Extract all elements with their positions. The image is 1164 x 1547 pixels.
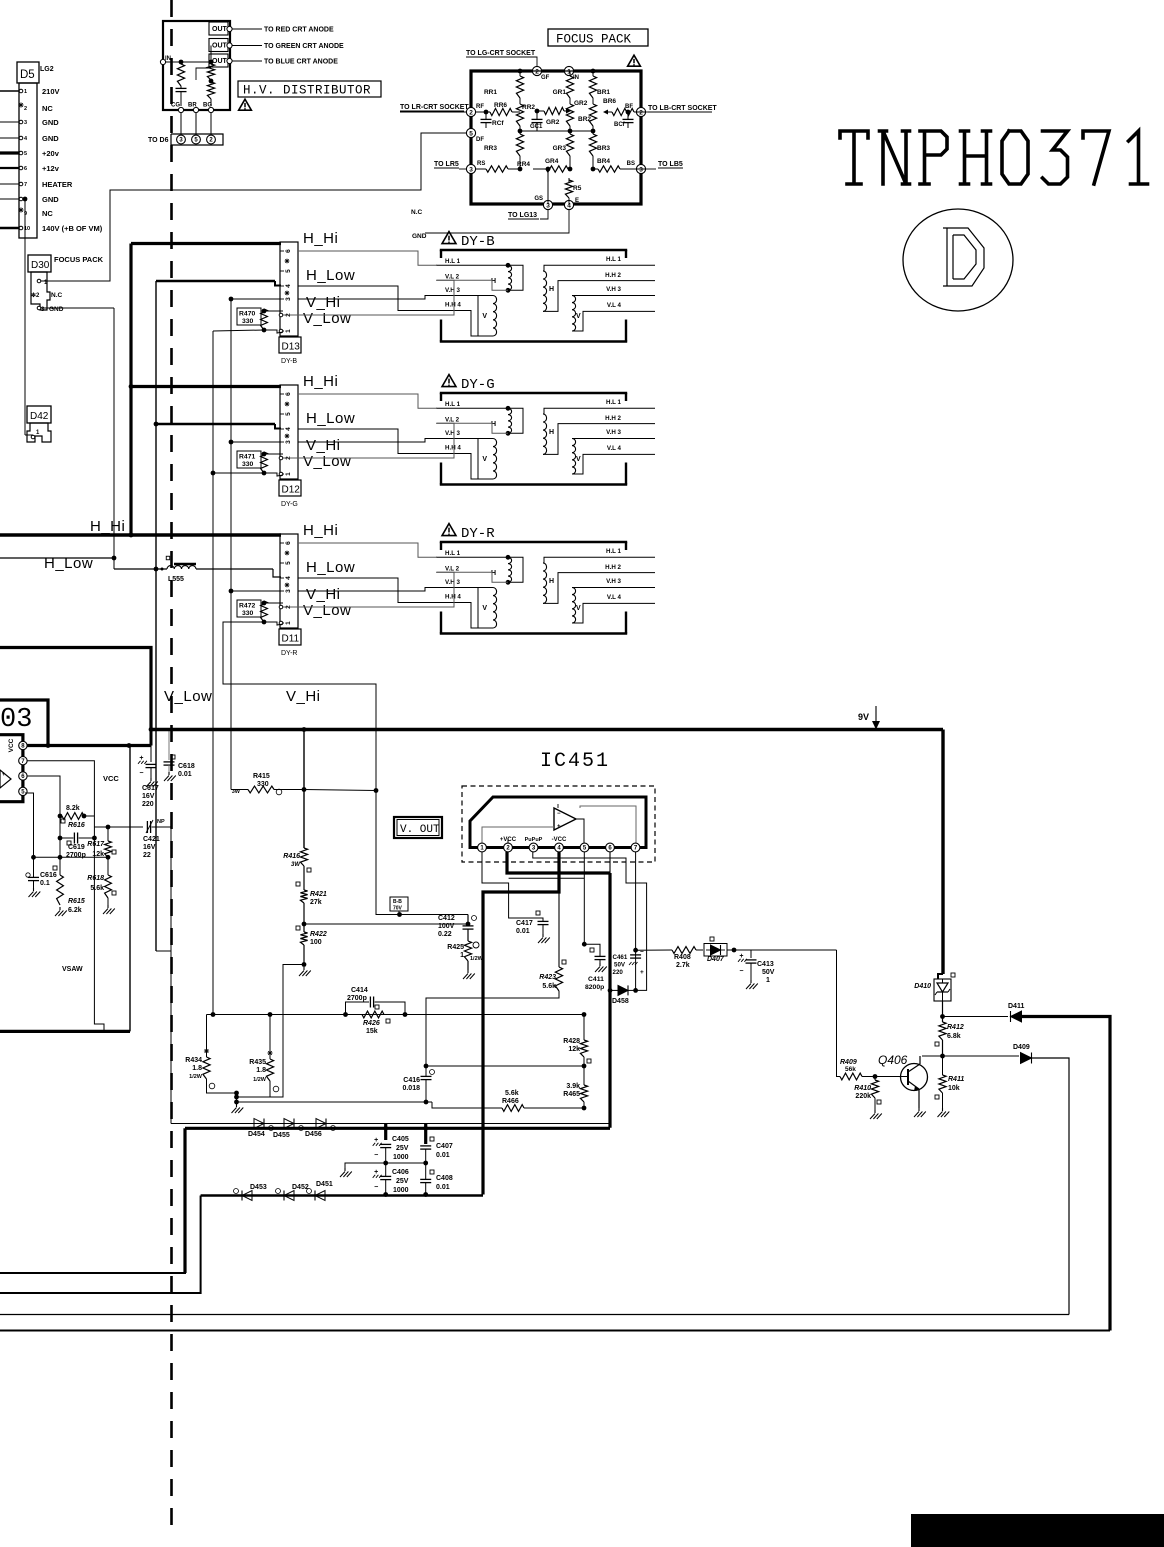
svg-text:C412: C412: [438, 915, 455, 922]
svg-text:RR1: RR1: [484, 89, 497, 96]
focus resistor RR2 chain: [516, 104, 523, 126]
focus pin IN: [564, 66, 573, 75]
focus internal top bus: [520, 70, 593, 72]
resistor R426 15k: [362, 1011, 384, 1018]
HV OUT terminal 1: [209, 22, 228, 35]
DY-B weave H.H4: [298, 286, 437, 311]
wires to D6 connector: [180, 113, 182, 134]
resistor R434 1.8 1/2W: [206, 1015, 208, 1058]
DY-G H.H4 wire: [436, 454, 478, 480]
svg-text:V: V: [482, 605, 487, 612]
svg-text:330: 330: [242, 461, 254, 468]
HV internal resistor right lower: [207, 82, 214, 99]
wire D30 pin3 to H_Low net: [41, 307, 114, 309]
svg-text:PuPuP: PuPuP: [525, 837, 543, 843]
resistor R425 1 1/2W: [464, 941, 471, 961]
DY-R V.L2 wire to coil bottom: [436, 572, 508, 582]
svg-text:R423: R423: [539, 974, 556, 981]
svg-text:4: 4: [285, 284, 292, 288]
svg-text:D42: D42: [30, 411, 49, 422]
connector D5 label box: [17, 62, 39, 83]
svg-text:R615: R615: [68, 898, 85, 905]
focus resistor BR6: [634, 111, 646, 113]
DY-R weave V.H3: [298, 588, 437, 592]
svg-text:N.C: N.C: [411, 209, 423, 216]
svg-text:GF: GF: [541, 75, 550, 81]
DY-B H coil left: [436, 264, 508, 266]
node lines going right: [237, 1101, 427, 1103]
svg-text:5: 5: [285, 412, 292, 416]
svg-text:V.H 3: V.H 3: [445, 430, 460, 437]
svg-text:H: H: [549, 578, 554, 585]
svg-text:10k: 10k: [948, 1085, 960, 1092]
svg-text:−: −: [739, 968, 743, 975]
svg-text:V_Low: V_Low: [164, 688, 212, 705]
stub pin3 DY-G: [231, 441, 281, 443]
svg-text:C413: C413: [757, 961, 774, 968]
svg-text:C618: C618: [178, 763, 195, 770]
svg-text:H.L 1: H.L 1: [606, 399, 622, 406]
pin1 wire to C417: [482, 852, 543, 921]
DY-G weave V.L2: [283, 423, 454, 458]
HV internal resistor left: [177, 64, 184, 86]
pin4 -VCC thick drop: [483, 852, 559, 1195]
thick bus y1128: [185, 1127, 610, 1130]
focus resistor BR4: [593, 168, 598, 170]
resistor R618 5.6k: [107, 857, 109, 875]
DY-B right external wires: [626, 264, 655, 266]
svg-text:H.L 1: H.L 1: [445, 258, 461, 265]
svg-text:V_Hi: V_Hi: [286, 688, 321, 705]
warning triangle HV: [239, 99, 252, 110]
svg-text:BR3: BR3: [597, 145, 610, 152]
svg-text:2700p: 2700p: [66, 852, 86, 859]
svg-text:R618: R618: [87, 875, 104, 882]
svg-text:16V: 16V: [142, 793, 155, 800]
svg-text:D411: D411: [1008, 1003, 1024, 1010]
resistor R616 8.2k: [62, 813, 84, 820]
svg-text:15k: 15k: [366, 1028, 378, 1035]
svg-text:DY-R: DY-R: [461, 526, 495, 542]
DY-R V coil right: [572, 587, 626, 589]
focus resistor BR4 wire: [592, 156, 594, 169]
resistor R465 3.9k: [580, 1085, 587, 1102]
corner D451 row to bottom: [0, 1196, 201, 1294]
svg-text:−: −: [374, 1184, 378, 1191]
resistor R423 5.6k: [555, 967, 562, 991]
svg-text:H.H 2: H.H 2: [605, 272, 621, 279]
svg-text:✻2: ✻2: [31, 292, 40, 299]
svg-text:0.1: 0.1: [40, 880, 50, 887]
9V power bus: [151, 728, 943, 731]
wire to GF: [533, 57, 537, 66]
wire collector line: [922, 1055, 943, 1057]
svg-text:C417: C417: [516, 920, 533, 927]
capacitor C461 220 50V: [630, 954, 641, 956]
diode D454: [254, 1119, 264, 1129]
svg-text:RS: RS: [477, 161, 485, 167]
svg-text:RR3: RR3: [484, 145, 497, 152]
svg-text:H_Low: H_Low: [306, 267, 355, 284]
DY-R H coil left: [436, 556, 508, 558]
svg-text:1: 1: [567, 68, 571, 75]
R422 to ground: [303, 945, 305, 965]
svg-text:D11: D11: [282, 634, 300, 645]
R471 top wire to pin2: [264, 453, 283, 455]
stub pin3 DY-B: [231, 298, 281, 300]
node line y857: [34, 856, 109, 858]
svg-text:220k: 220k: [855, 1093, 871, 1100]
svg-text:16V: 16V: [143, 844, 156, 851]
svg-text:R470: R470: [239, 311, 255, 318]
pin2 +VCC thick drop: [507, 852, 610, 873]
svg-text:TO D6: TO D6: [148, 137, 169, 144]
IC603 pin 8 VCC: [19, 741, 27, 749]
svg-text:NC: NC: [42, 104, 53, 113]
IC451 pin 5: [580, 843, 589, 852]
R471 bottom wire: [264, 473, 283, 476]
focus pin GF: [532, 66, 541, 75]
waveform ref box 70V: [390, 897, 408, 911]
svg-text:VCC: VCC: [103, 774, 119, 783]
DY-R H.H4 wire: [436, 603, 478, 629]
IC body right edge: [0, 735, 23, 802]
focus resistor BR1: [592, 71, 594, 76]
DY-R weave V.L2: [283, 572, 454, 607]
vertical H_Hi distribution: [129, 244, 132, 536]
focus pin GS: [543, 200, 552, 209]
connector D42 label box: [27, 406, 51, 423]
svg-text:D456: D456: [305, 1131, 322, 1138]
focus mid bus: [520, 130, 593, 132]
svg-text:RR4: RR4: [517, 161, 530, 168]
svg-text:V: V: [576, 605, 581, 612]
svg-text:V: V: [576, 313, 581, 320]
focus resistor GR3: [569, 131, 571, 134]
svg-text:5.6k: 5.6k: [505, 1090, 519, 1097]
svg-text:GC1: GC1: [530, 124, 543, 130]
capacitor C405 1000 25V: [384, 1124, 387, 1141]
revision circle D: [903, 209, 1013, 311]
diode D452: [284, 1191, 294, 1201]
diode D409: [943, 1055, 1020, 1057]
svg-text:GND: GND: [42, 134, 59, 143]
DY-R H coil right: [544, 557, 626, 563]
DY-B V coil left: [436, 296, 493, 337]
R470 top wire to pin2: [264, 310, 283, 312]
svg-text:TO LG-CRT SOCKET: TO LG-CRT SOCKET: [466, 50, 536, 57]
wire R415 node to V_Hi drop: [304, 790, 376, 791]
svg-text:HEATER: HEATER: [42, 180, 73, 189]
svg-text:D410: D410: [914, 983, 931, 990]
diode D451: [315, 1191, 325, 1201]
svg-text:D13: D13: [282, 342, 301, 353]
svg-text:V: V: [482, 456, 487, 463]
capacitor C618 0.01: [168, 730, 170, 761]
diode D456: [316, 1119, 326, 1129]
focus resistor RR1: [519, 71, 521, 76]
capacitor C421 22/16V NP: [94, 826, 143, 828]
svg-text:V.H 3: V.H 3: [445, 579, 460, 586]
HV jumper wire: [196, 68, 211, 80]
focus resistor GR2 horizontal: [537, 110, 544, 112]
svg-text:H.L 1: H.L 1: [445, 401, 461, 408]
svg-text:R616: R616: [68, 822, 85, 829]
svg-text:BR6: BR6: [603, 98, 616, 105]
svg-text:3.9k: 3.9k: [566, 1083, 580, 1090]
svg-text:OUT: OUT: [212, 58, 228, 65]
wire to Q406 base network: [837, 950, 841, 1077]
main H_Hi bus from left edge: [0, 533, 281, 536]
svg-text:100: 100: [310, 939, 322, 946]
svg-text:+: +: [640, 969, 644, 976]
svg-text:9V: 9V: [858, 712, 869, 722]
wire pin6 down to R616: [27, 776, 60, 816]
svg-text:3: 3: [639, 166, 643, 173]
IC451 pin 7: [631, 843, 640, 852]
svg-text:C406: C406: [392, 1169, 409, 1176]
connector D13 body: [280, 242, 298, 336]
warning triangle DY-G: [442, 375, 456, 387]
node R428 bottom: [583, 1057, 585, 1085]
svg-text:TO RED CRT ANODE: TO RED CRT ANODE: [264, 27, 334, 34]
svg-text:H.V. DISTRIBUTOR: H.V. DISTRIBUTOR: [243, 84, 371, 98]
svg-text:1000: 1000: [393, 1154, 409, 1161]
svg-text:1: 1: [24, 89, 27, 95]
focus cap RCf: [481, 118, 492, 120]
svg-text:5.6k: 5.6k: [542, 983, 556, 990]
DY-R V coil left: [436, 588, 493, 629]
svg-text:D454: D454: [248, 1131, 265, 1138]
svg-text:6: 6: [24, 166, 27, 172]
svg-text:5: 5: [285, 561, 292, 565]
svg-text:V.L 4: V.L 4: [607, 302, 622, 309]
FOCUS PACK title box: [548, 29, 648, 46]
wire H_Hi to DY-G: [131, 385, 281, 388]
svg-text:4: 4: [285, 576, 292, 580]
DY-B weave V.L2: [283, 280, 454, 315]
resistor R421 27k: [303, 866, 305, 890]
svg-text:TO LR-CRT SOCKET: TO LR-CRT SOCKET: [400, 104, 469, 111]
R435 bottom wire: [269, 1081, 271, 1097]
resistor R415 330 3W: [231, 789, 248, 791]
wire to C416: [426, 1065, 584, 1067]
connector D12 body: [280, 385, 298, 479]
wire bus to R416: [303, 730, 305, 849]
opamp inside IC451: [554, 808, 576, 830]
focus resistor RR4 wire: [519, 156, 521, 169]
svg-text:TO LB5: TO LB5: [658, 161, 683, 168]
svg-text:+: +: [2, 772, 6, 778]
svg-text:H.H 4: H.H 4: [445, 302, 461, 309]
svg-text:C405: C405: [392, 1136, 409, 1143]
wire H_Low from left edge: [0, 557, 114, 559]
svg-text:H_Hi: H_Hi: [303, 373, 338, 390]
svg-text:3: 3: [285, 440, 292, 444]
svg-text:LG2: LG2: [40, 66, 54, 73]
9V bus corner down to D410: [941, 730, 944, 975]
yoke frame DY-R: [440, 541, 627, 543]
svg-text:220: 220: [142, 801, 154, 808]
svg-text:GND: GND: [42, 118, 59, 127]
svg-text:C414: C414: [351, 987, 368, 994]
node D410 bottom: [942, 1001, 944, 1022]
svg-text:D5: D5: [20, 69, 35, 81]
HV internal cap: [176, 87, 187, 89]
focus R5: [568, 178, 570, 182]
capacitor C414 2700p: [346, 1002, 370, 1015]
VCC bus from pin8: [27, 744, 151, 747]
yoke frame DY-B: [440, 249, 627, 251]
svg-text:1: 1: [285, 472, 292, 476]
svg-text:RF: RF: [476, 104, 484, 110]
svg-text:−: −: [139, 770, 143, 777]
svg-text:BR4: BR4: [597, 158, 610, 165]
svg-text:V. OUT: V. OUT: [400, 824, 440, 836]
svg-text:8.2k: 8.2k: [66, 805, 80, 812]
svg-text:TO LB-CRT SOCKET: TO LB-CRT SOCKET: [648, 105, 717, 112]
svg-text:0.018: 0.018: [402, 1085, 420, 1092]
svg-text:0.01: 0.01: [516, 928, 530, 935]
svg-text:C421: C421: [143, 836, 160, 843]
svg-text:RR2: RR2: [522, 104, 535, 111]
svg-text:H.H 2: H.H 2: [605, 564, 621, 571]
HV internal wire: [166, 61, 211, 63]
svg-text:H.L 1: H.L 1: [606, 256, 622, 263]
HV OUT terminal 3: [209, 54, 228, 67]
pin5 drop to C411: [583, 852, 585, 944]
connector D11 body: [280, 534, 298, 628]
svg-text:DY-B: DY-B: [281, 358, 297, 365]
svg-text:GR2: GR2: [546, 119, 560, 126]
svg-text:1000: 1000: [393, 1187, 409, 1194]
resistor R416 3W: [300, 848, 307, 866]
svg-text:V: V: [576, 456, 581, 463]
svg-text:V.H 3: V.H 3: [606, 578, 621, 585]
ground mid caps: [345, 1163, 386, 1168]
diode D407 boxed: [696, 949, 703, 951]
svg-text:D30: D30: [31, 260, 50, 271]
svg-text:3: 3: [285, 297, 292, 301]
svg-text:R422: R422: [310, 931, 327, 938]
connector D13 label box: [279, 337, 301, 353]
opamp in IC603: [0, 770, 11, 788]
thick wire D411 to right edge: [1022, 1017, 1110, 1331]
DY-B weave V.H3: [298, 296, 437, 300]
svg-text:220: 220: [613, 969, 624, 976]
wire into L555: [114, 568, 167, 570]
svg-text:3: 3: [24, 120, 27, 126]
svg-text:R416: R416: [283, 853, 300, 860]
svg-text:V.H 3: V.H 3: [445, 287, 460, 294]
D5 pin8 gnd junction to D42: [23, 197, 28, 202]
svg-text:1/2W: 1/2W: [253, 1077, 267, 1083]
capacitor C411 8200p: [595, 955, 606, 957]
inductor L555: [167, 566, 196, 569]
resistor R412 6.8k: [939, 1022, 946, 1040]
svg-text:V_Hi: V_Hi: [306, 586, 341, 603]
stub pin3 DY-R: [231, 590, 281, 592]
drawing number TNPH0371: [840, 131, 868, 184]
R434 bottom wire: [207, 1079, 237, 1093]
DY-G H coil left: [436, 407, 508, 409]
R423 bottom wire: [426, 991, 559, 1066]
svg-text:2: 2: [469, 109, 473, 116]
focus pin E: [564, 200, 573, 209]
svg-text:6: 6: [285, 249, 292, 253]
focus pack body: [471, 71, 641, 204]
svg-text:FOCUS PACK: FOCUS PACK: [54, 255, 104, 264]
black registration bar bottom-right: [911, 1514, 1164, 1547]
diode row D451-453 line: [201, 1194, 483, 1197]
DY-G weave H.L1: [298, 394, 437, 408]
wire y924 from R422 node to C412: [304, 923, 468, 925]
IC451 pin 4: [555, 843, 564, 852]
svg-text:V_Low: V_Low: [303, 453, 351, 470]
wire H_Low to DY-G: [156, 423, 275, 426]
capacitor C408 0.01: [420, 1178, 431, 1180]
svg-text:CG: CG: [171, 103, 180, 109]
connector D5 body: [19, 83, 37, 238]
svg-text:TO LR5: TO LR5: [434, 161, 459, 168]
svg-text:5.6k: 5.6k: [90, 885, 104, 892]
svg-text:L555: L555: [168, 576, 184, 583]
resistor R617 12k: [107, 827, 109, 841]
svg-text:GND: GND: [42, 195, 59, 204]
svg-text:OUT: OUT: [212, 26, 228, 33]
svg-text:2700p: 2700p: [347, 995, 367, 1002]
bottom long wire outer: [0, 1330, 1110, 1332]
svg-text:+VCC: +VCC: [500, 837, 517, 843]
svg-text:H.L 1: H.L 1: [606, 548, 622, 555]
svg-text:9: 9: [24, 211, 27, 217]
connector D11 label box: [279, 629, 301, 645]
opamp output to pin5: [576, 819, 584, 843]
svg-text:−: −: [557, 811, 561, 817]
svg-text:TO GREEN CRT ANODE: TO GREEN CRT ANODE: [264, 43, 344, 50]
focus resistor RR3: [519, 131, 521, 134]
svg-text:4: 4: [285, 427, 292, 431]
H.V. distributor block body: [163, 21, 230, 110]
svg-text:H_Hi: H_Hi: [303, 230, 338, 247]
feedback wire to pin7: [580, 806, 636, 843]
svg-text:56k: 56k: [845, 1066, 856, 1073]
wire pin7 right and down: [27, 761, 94, 827]
dashed page-separation line: [170, 0, 173, 1526]
svg-text:D407: D407: [707, 956, 725, 963]
svg-text:D409: D409: [1013, 1044, 1030, 1051]
svg-text:R410: R410: [854, 1085, 871, 1092]
svg-text:50V: 50V: [614, 962, 626, 969]
svg-text:330: 330: [242, 610, 254, 617]
svg-text:R412: R412: [947, 1024, 964, 1031]
svg-text:C416: C416: [403, 1077, 420, 1084]
diode D458: [608, 988, 613, 993]
svg-text:GND: GND: [412, 233, 427, 240]
svg-text:210V: 210V: [42, 87, 60, 96]
svg-text:H_Hi: H_Hi: [303, 522, 338, 539]
svg-text:330: 330: [257, 781, 269, 788]
pin2 stub: [507, 838, 509, 843]
svg-text:DF: DF: [476, 137, 484, 143]
svg-text:NC: NC: [42, 209, 53, 218]
svg-text:+: +: [557, 824, 561, 830]
zener D410 boxed: [938, 974, 943, 979]
svg-text:D455: D455: [273, 1132, 290, 1139]
DY-B V coil right: [572, 295, 626, 297]
svg-text:1: 1: [285, 329, 292, 333]
svg-text:25V: 25V: [396, 1145, 409, 1152]
